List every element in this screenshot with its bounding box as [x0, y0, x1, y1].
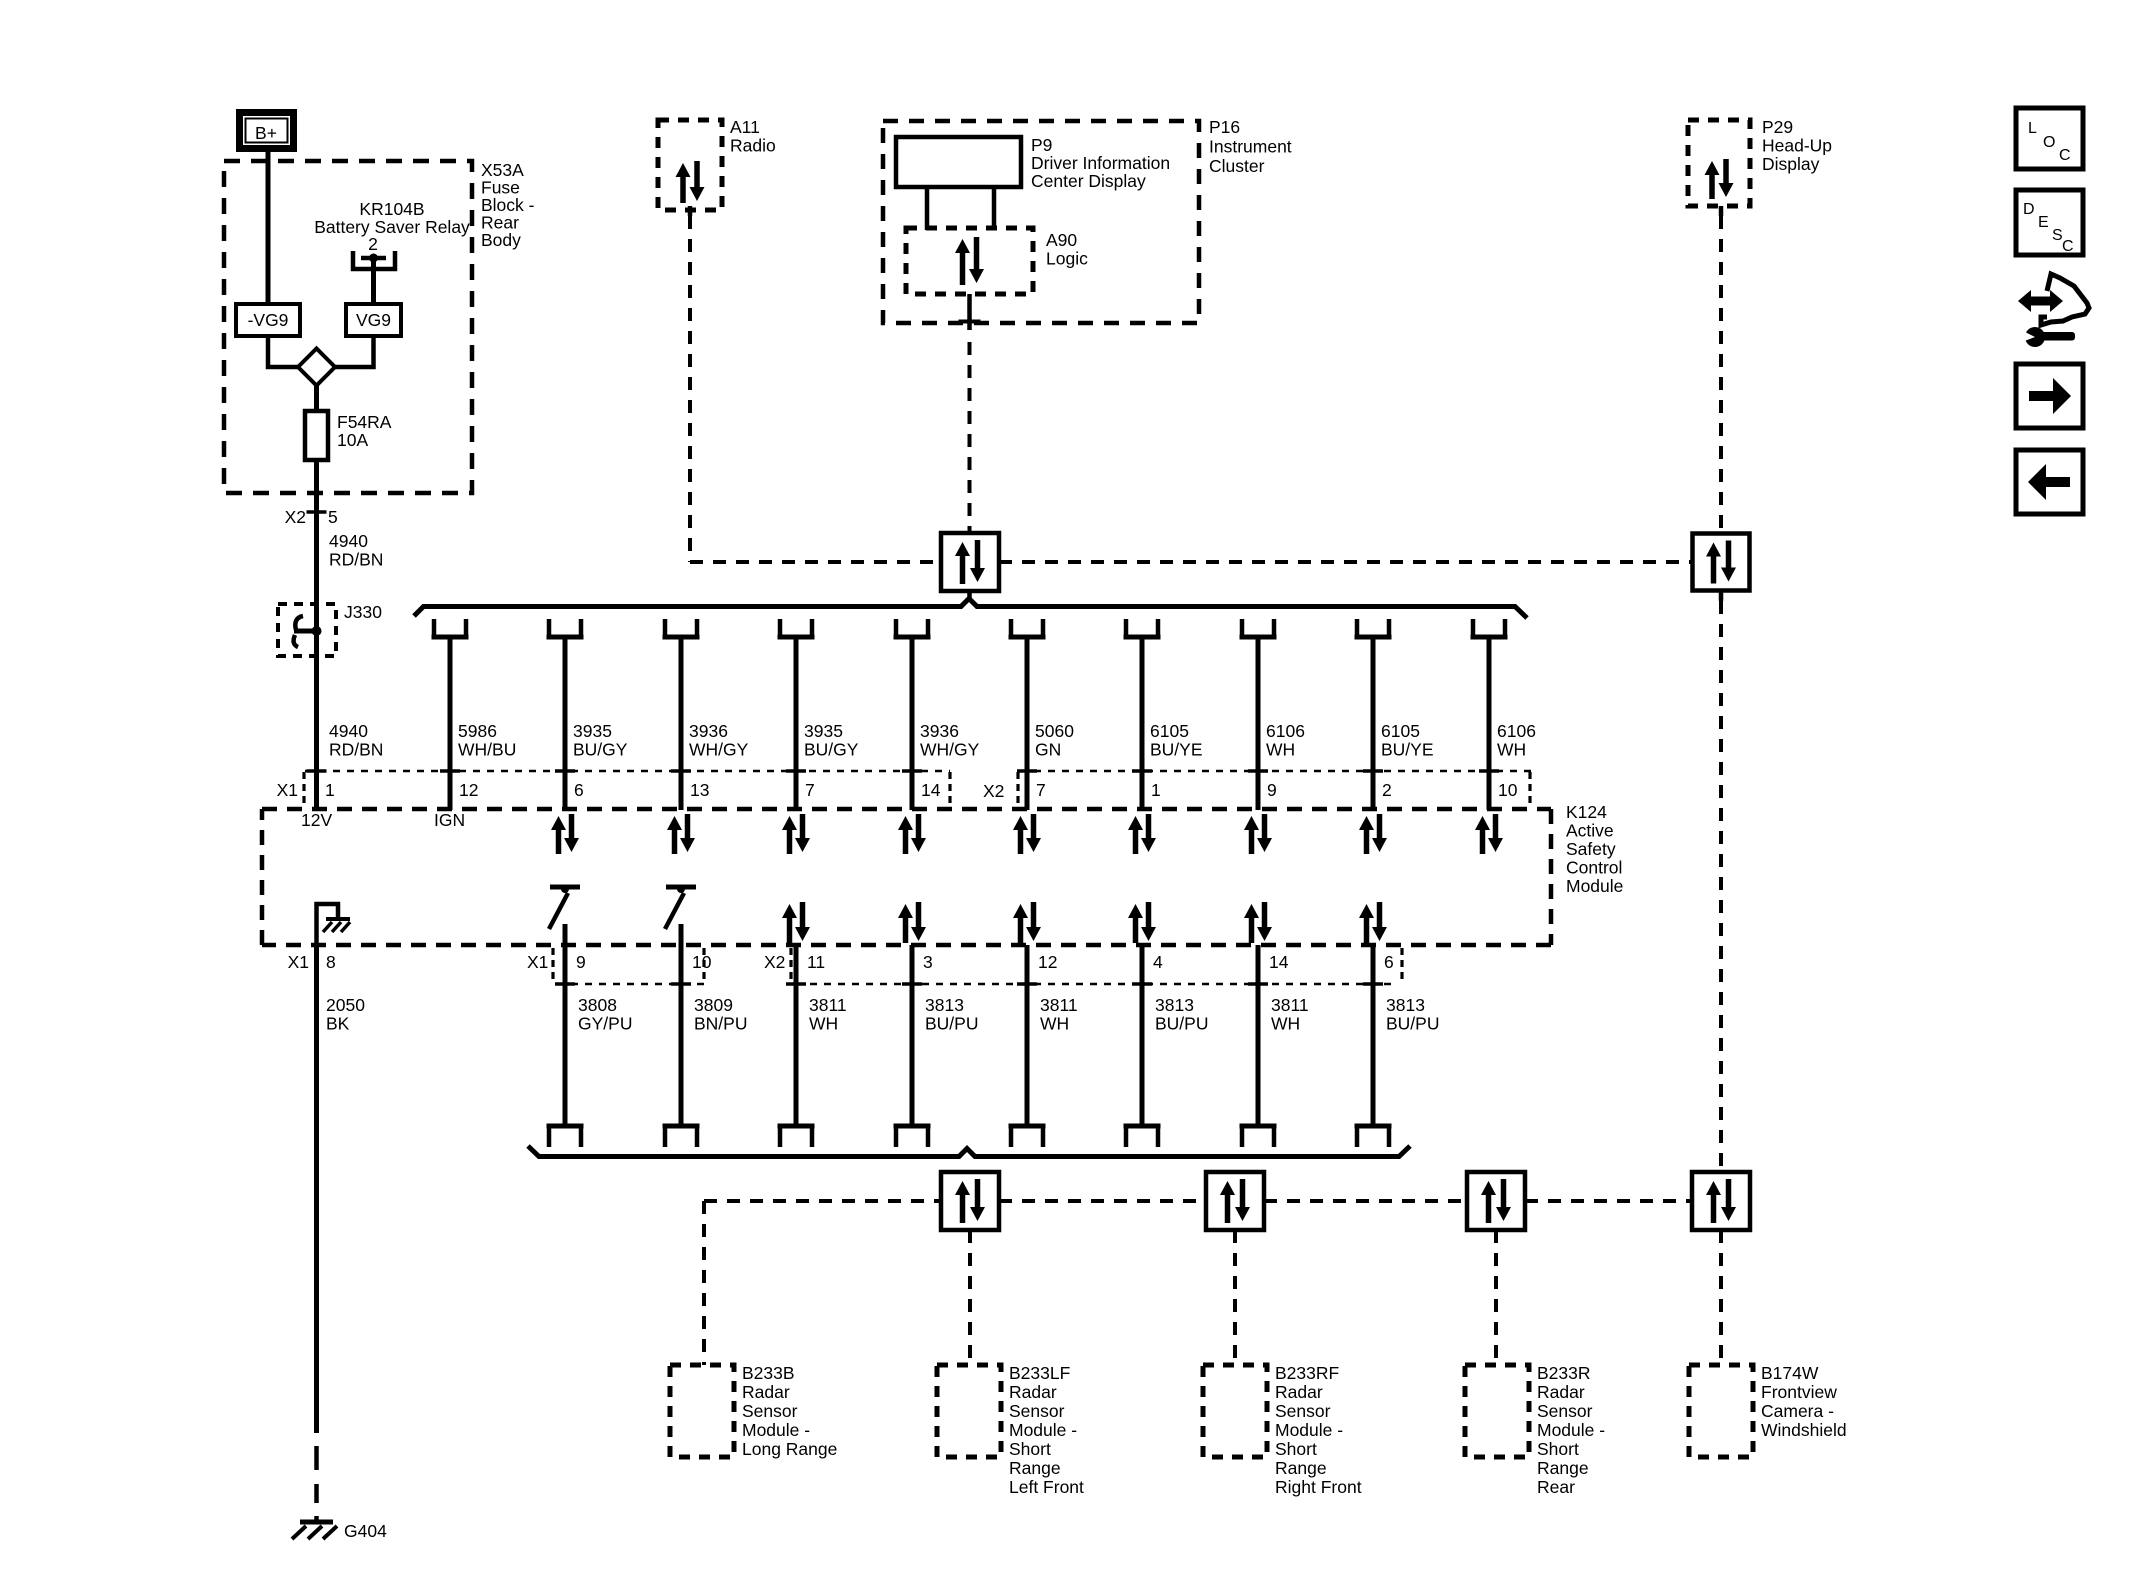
wire label 3813 BU/PU: [925, 995, 978, 1034]
svg-text:Camera -: Camera -: [1761, 1401, 1834, 1421]
icon LOC button: [2016, 108, 2083, 169]
wire 3813 BU/PU from K124 pin 6: [1363, 945, 1383, 1126]
svg-text:B233B: B233B: [742, 1363, 795, 1383]
svg-text:Module -: Module -: [742, 1420, 810, 1440]
K124 internal serial arrows at x=1489 (row 1): [1475, 814, 1503, 854]
pin 4 (bottom): [1153, 952, 1163, 972]
bus drop terminal for wire 6105: [1124, 619, 1161, 637]
svg-text:Range: Range: [1275, 1458, 1327, 1478]
K124 internal switch (left): [549, 885, 580, 929]
wire junction to B174W: [1719, 1230, 1723, 1365]
svg-text:3935: 3935: [573, 721, 612, 741]
bus drop terminal for wire 3936: [663, 619, 700, 637]
wire label 6105 BU/YE: [1381, 721, 1434, 760]
pin 7: [805, 780, 815, 800]
connector label X2 (bottom): [764, 948, 791, 982]
wire 5060 GN to K124 pin 7: [1017, 637, 1037, 810]
svg-text:9: 9: [576, 952, 586, 972]
svg-text:-VG9: -VG9: [248, 310, 289, 330]
wire label 5060 GN: [1035, 721, 1074, 760]
bus drop terminal for wire 6106: [1240, 619, 1277, 637]
svg-text:Safety: Safety: [1566, 839, 1616, 859]
svg-text:Short: Short: [1275, 1439, 1317, 1459]
wire -VG9 to junction diamond: [268, 336, 298, 367]
svg-text:Left Front: Left Front: [1009, 1477, 1084, 1497]
svg-text:2: 2: [1382, 780, 1392, 800]
bus drop terminal for wire 5060: [1009, 619, 1046, 637]
wire serial data to B233B: [702, 1201, 706, 1365]
svg-text:3: 3: [923, 952, 933, 972]
wire VG9 to junction diamond: [334, 336, 374, 367]
svg-text:B233LF: B233LF: [1009, 1363, 1070, 1383]
wire 2050 BK ground: [314, 945, 319, 1524]
wire A11 to serial data line: [688, 206, 693, 562]
pin 12: [459, 780, 478, 800]
svg-text:BU/YE: BU/YE: [1150, 740, 1203, 760]
svg-text:3813: 3813: [1155, 995, 1194, 1015]
svg-text:12V: 12V: [301, 810, 332, 830]
wire diamond to fuse F54RA: [314, 385, 319, 413]
label P29 Head-Up Display: [1762, 117, 1832, 174]
pin 3 (bottom): [923, 952, 933, 972]
pin 9 (bottom): [576, 952, 586, 972]
label G404: [344, 1521, 387, 1541]
wire P29 junction down to lower junction: [1719, 591, 1724, 1172]
bus terminal for wire 3811: [1240, 1126, 1277, 1147]
bus terminal for wire 3808: [547, 1126, 584, 1147]
stub junction box to data bus break: [967, 591, 972, 599]
svg-text:Battery Saver Relay: Battery Saver Relay: [314, 217, 470, 237]
svg-text:9: 9: [1267, 780, 1277, 800]
label B174W: [1761, 1363, 1847, 1440]
svg-text:10A: 10A: [337, 430, 368, 450]
svg-text:BN/PU: BN/PU: [694, 1014, 747, 1034]
label X53A Fuse Block - Rear Body: [481, 160, 535, 250]
svg-text:6105: 6105: [1150, 721, 1189, 741]
svg-text:B233RF: B233RF: [1275, 1363, 1339, 1383]
svg-text:3813: 3813: [925, 995, 964, 1015]
wire A90 to serial data junction: [959, 294, 981, 533]
svg-text:Module -: Module -: [1275, 1420, 1343, 1440]
label J330: [344, 602, 382, 622]
svg-text:Range: Range: [1009, 1458, 1061, 1478]
svg-text:Logic: Logic: [1046, 249, 1088, 269]
svg-text:X2: X2: [285, 507, 306, 527]
svg-text:12: 12: [1038, 952, 1057, 972]
svg-text:12: 12: [459, 780, 478, 800]
wire 6105 BU/YE to K124 pin 2: [1363, 637, 1383, 810]
svg-text:7: 7: [1036, 780, 1046, 800]
svg-text:Long Range: Long Range: [742, 1439, 837, 1459]
label IGN: [434, 810, 465, 830]
svg-text:GY/PU: GY/PU: [578, 1014, 632, 1034]
K124 internal serial arrows at x=1142 (row 2): [1128, 902, 1156, 943]
svg-text:Radar: Radar: [1009, 1382, 1057, 1402]
svg-text:D: D: [2023, 201, 2035, 218]
svg-text:13: 13: [690, 780, 709, 800]
bus terminal for wire 3811: [1009, 1126, 1046, 1147]
svg-text:WH: WH: [1497, 740, 1526, 760]
svg-text:5: 5: [328, 507, 338, 527]
label B233B: [742, 1363, 837, 1459]
wire 3809 BN/PU from K124 pin 10: [671, 924, 691, 1126]
svg-text:J330: J330: [344, 602, 382, 622]
icon DESC button: [2016, 190, 2083, 255]
K124 internal serial arrows at x=1373 (row 2): [1359, 902, 1387, 943]
wire label 3936 WH/GY: [689, 721, 749, 760]
pin 9: [1267, 780, 1277, 800]
K124 internal serial arrows at x=1027 (row 1): [1013, 814, 1041, 854]
splice J330: [278, 604, 336, 656]
wire 3808 GY/PU from K124 pin 9: [555, 924, 575, 1126]
svg-text:3935: 3935: [804, 721, 843, 741]
svg-text:BU/PU: BU/PU: [1386, 1014, 1439, 1034]
serial data junction box (B233RF): [1206, 1172, 1264, 1230]
label K124 Active Safety Control Module: [1566, 802, 1623, 896]
wire label 4940 RD/BN (lower): [329, 721, 383, 760]
svg-text:B233R: B233R: [1537, 1363, 1591, 1383]
bus drop terminal for wire 3935: [778, 619, 815, 637]
label A90 Logic: [1046, 230, 1088, 269]
svg-text:WH/BU: WH/BU: [458, 740, 516, 760]
serial data junction box (top center): [941, 533, 999, 591]
K124 internal serial arrows at x=912 (row 1): [898, 814, 926, 854]
pin 12 (bottom): [1038, 952, 1057, 972]
connector X1 face line (bottom): [557, 983, 710, 986]
svg-text:A11: A11: [730, 117, 760, 137]
icon next arrow button: [2016, 364, 2083, 428]
bus drop terminal for wire 5986: [432, 619, 469, 637]
svg-text:WH: WH: [1040, 1014, 1069, 1034]
svg-text:Range: Range: [1537, 1458, 1589, 1478]
serial data junction box (B174W): [1692, 1172, 1750, 1230]
connector VG9: [346, 304, 401, 336]
svg-text:O: O: [2043, 134, 2055, 151]
wire P9 right leg to A90: [992, 187, 997, 230]
relay KR104B terminal 2 symbol: [353, 251, 395, 269]
K124 internal serial arrows at x=681 (row 1): [667, 814, 695, 854]
module K124 Active Safety Control Module dashed outline: [262, 809, 1551, 945]
svg-text:Display: Display: [1762, 154, 1820, 174]
label F54RA 10A: [337, 412, 392, 450]
label A11 Radio: [730, 117, 776, 156]
svg-text:Module: Module: [1566, 876, 1623, 896]
wire label 3811 WH: [1040, 995, 1078, 1034]
svg-text:10: 10: [692, 952, 712, 972]
svg-text:5986: 5986: [458, 721, 497, 741]
wire junction to B233R: [1494, 1230, 1498, 1365]
wire relay terminal 2 to VG9: [371, 260, 376, 304]
svg-text:3813: 3813: [1386, 995, 1425, 1015]
junction diamond: [298, 349, 335, 386]
K124 internal serial arrows at x=1027 (row 2): [1013, 902, 1041, 943]
module P16 Instrument Cluster dashed box: [883, 121, 1199, 323]
pin 14 (bottom): [1269, 952, 1289, 972]
wire label 3808 GY/PU: [578, 995, 632, 1034]
serial data junction box (B233R): [1467, 1172, 1525, 1230]
wire P29 to serial data junction: [1719, 206, 1724, 533]
wire 3811 WH from K124 pin 11: [786, 945, 806, 1126]
wire label 3811 WH: [1271, 995, 1309, 1034]
wire 3813 BU/PU from K124 pin 4: [1132, 945, 1152, 1126]
bus terminal for wire 3813: [1124, 1126, 1161, 1147]
svg-text:BK: BK: [326, 1014, 350, 1034]
svg-text:WH: WH: [1266, 740, 1295, 760]
svg-text:11: 11: [807, 952, 825, 972]
module B233B dashed box: [670, 1365, 734, 1457]
svg-text:Cluster: Cluster: [1209, 156, 1265, 176]
K124 internal serial arrows at x=796 (row 1): [782, 814, 810, 854]
svg-text:3811: 3811: [1271, 995, 1309, 1015]
wire 3936 WH/GY to K124 pin 13: [671, 637, 691, 810]
wire label 3809 BN/PU: [694, 995, 747, 1034]
module B233R dashed box: [1465, 1365, 1529, 1457]
svg-text:RD/BN: RD/BN: [329, 740, 383, 760]
fuse F54RA 10A: [305, 411, 328, 460]
svg-text:Radio: Radio: [730, 136, 776, 156]
K124 internal serial arrows at x=912 (row 2): [898, 902, 926, 943]
fuse block bottom connector X2 pin 5 tick: [285, 507, 338, 527]
svg-text:WH: WH: [1271, 1014, 1300, 1034]
wire label 3813 BU/PU: [1155, 995, 1208, 1034]
display P9 Driver Information Center Display: [896, 137, 1021, 187]
relay KR104B label: [314, 199, 470, 254]
wire label 2050 BK: [326, 995, 365, 1034]
svg-text:B+: B+: [255, 123, 277, 143]
wire 3811 WH from K124 pin 14: [1248, 945, 1268, 1126]
svg-text:Driver Information: Driver Information: [1031, 153, 1170, 173]
ground G404: [292, 1522, 337, 1539]
K124 internal serial arrows at x=565 (row 1): [551, 814, 579, 854]
icon diagnostic wrench: [2018, 274, 2089, 347]
module B174W dashed box: [1689, 1365, 1753, 1457]
wire label 3813 BU/PU: [1386, 995, 1439, 1034]
connector end mark (top right): [1528, 772, 1531, 807]
svg-text:Short: Short: [1009, 1439, 1051, 1459]
svg-text:Sensor: Sensor: [1537, 1401, 1593, 1421]
svg-text:6105: 6105: [1381, 721, 1420, 741]
svg-text:X1: X1: [277, 780, 298, 800]
bus drop terminal for wire 6106: [1471, 619, 1508, 637]
svg-text:VG9: VG9: [356, 310, 391, 330]
battery positive B+ terminal: [236, 109, 297, 152]
svg-text:P16: P16: [1209, 117, 1240, 137]
wire junction to B233RF: [1233, 1230, 1237, 1365]
svg-text:Windshield: Windshield: [1761, 1420, 1847, 1440]
wire label 3936 WH/GY: [920, 721, 980, 760]
svg-text:1: 1: [1151, 780, 1161, 800]
svg-text:3811: 3811: [1040, 995, 1078, 1015]
svg-text:BU/YE: BU/YE: [1381, 740, 1434, 760]
wire label 4940 RD/BN (upper): [329, 531, 383, 570]
pin 2: [1382, 780, 1392, 800]
connector label X1 for ground pin: [288, 952, 309, 972]
svg-text:Instrument: Instrument: [1209, 137, 1292, 157]
bus terminal for wire 3813: [1355, 1126, 1392, 1147]
svg-text:Frontview: Frontview: [1761, 1382, 1837, 1402]
wire P9 left leg to A90: [925, 187, 930, 230]
svg-text:3936: 3936: [689, 721, 728, 741]
label B233LF: [1009, 1363, 1084, 1497]
pin 14: [921, 780, 941, 800]
wire label 6106 WH: [1266, 721, 1305, 760]
pin 1: [1151, 780, 1161, 800]
pin 10: [1498, 780, 1518, 800]
svg-text:Active: Active: [1566, 821, 1614, 841]
pin 7: [1036, 780, 1046, 800]
svg-text:GN: GN: [1035, 740, 1061, 760]
svg-text:2: 2: [368, 234, 378, 254]
svg-text:Module -: Module -: [1537, 1420, 1605, 1440]
pin 8: [326, 952, 336, 972]
svg-text:10: 10: [1498, 780, 1518, 800]
wire 6106 WH to K124 pin 10: [1479, 637, 1499, 810]
wire 5986 WH/BU to K124 pin 12: [440, 637, 460, 810]
module B233LF dashed box: [937, 1365, 1001, 1457]
wire junction to B233LF: [968, 1230, 972, 1365]
svg-text:Sensor: Sensor: [1275, 1401, 1331, 1421]
connector label X2 (top): [950, 772, 1018, 807]
svg-text:BU/GY: BU/GY: [573, 740, 628, 760]
svg-text:C: C: [2059, 147, 2071, 164]
label 12V: [301, 810, 332, 830]
label B233RF: [1275, 1363, 1362, 1497]
connector X1 end mark (bottom): [702, 948, 705, 982]
svg-text:Radar: Radar: [1537, 1382, 1585, 1402]
module P29 Head-Up Display dashed box: [1688, 120, 1750, 206]
svg-text:Body: Body: [481, 230, 521, 250]
data bus (bottom): [528, 1146, 1410, 1157]
svg-text:Short: Short: [1537, 1439, 1579, 1459]
svg-text:X1: X1: [288, 952, 309, 972]
wire 6105 BU/YE to K124 pin 1: [1132, 637, 1152, 810]
wire 3811 WH from K124 pin 12: [1017, 945, 1037, 1126]
svg-text:3808: 3808: [578, 995, 617, 1015]
svg-text:4: 4: [1153, 952, 1163, 972]
svg-text:5060: 5060: [1035, 721, 1074, 741]
svg-text:BU/PU: BU/PU: [1155, 1014, 1208, 1034]
fuse block X53A dashed outline: [224, 161, 472, 493]
label B233R: [1537, 1363, 1605, 1497]
svg-text:3936: 3936: [920, 721, 959, 741]
svg-text:Sensor: Sensor: [1009, 1401, 1065, 1421]
wire 3935 BU/GY to K124 pin 6: [555, 637, 575, 810]
connector label X1 (bottom): [527, 948, 553, 982]
svg-text:RD/BN: RD/BN: [329, 550, 383, 570]
K124 internal serial arrows at x=796 (row 2): [782, 902, 810, 943]
A11 serial data arrows: [676, 161, 705, 203]
bus terminal for wire 3809: [663, 1126, 700, 1147]
svg-text:6: 6: [1384, 952, 1394, 972]
svg-text:6106: 6106: [1497, 721, 1536, 741]
svg-text:Rear: Rear: [1537, 1477, 1575, 1497]
svg-text:X2: X2: [983, 781, 1004, 801]
svg-text:Radar: Radar: [742, 1382, 790, 1402]
svg-text:Radar: Radar: [1275, 1382, 1323, 1402]
svg-text:A90: A90: [1046, 230, 1077, 250]
svg-text:WH/GY: WH/GY: [920, 740, 980, 760]
svg-text:L: L: [2028, 120, 2037, 137]
connector X2 face line (bottom): [796, 948, 1402, 984]
wire 3935 BU/GY to K124 pin 7: [786, 637, 806, 810]
svg-text:4940: 4940: [329, 531, 368, 551]
pin 1 (12V): [307, 771, 335, 800]
serial data line radio to junctions: [690, 560, 1693, 564]
svg-text:Sensor: Sensor: [742, 1401, 798, 1421]
pin 11 (bottom): [807, 952, 825, 972]
svg-text:X1: X1: [527, 952, 548, 972]
svg-text:IGN: IGN: [434, 810, 465, 830]
svg-text:KR104B: KR104B: [359, 199, 424, 219]
serial data junction box (top right): [1693, 534, 1750, 591]
svg-text:3811: 3811: [809, 995, 847, 1015]
svg-text:P29: P29: [1762, 117, 1793, 137]
svg-text:WH: WH: [809, 1014, 838, 1034]
label P9 Driver Information Center Display: [1031, 135, 1170, 191]
wire label 3935 BU/GY: [573, 721, 628, 760]
K124 connector X1 face line (top): [305, 770, 1538, 773]
svg-text:3809: 3809: [694, 995, 733, 1015]
svg-text:Module -: Module -: [1009, 1420, 1077, 1440]
bus drop terminal for wire 6105: [1355, 619, 1392, 637]
P29 serial data arrows: [1705, 159, 1734, 199]
serial data junction box (B233LF): [941, 1172, 999, 1230]
wire label 6106 WH: [1497, 721, 1536, 760]
svg-text:Control: Control: [1566, 858, 1622, 878]
logic block A90 dashed box: [906, 228, 1033, 294]
wire label 5986 WH/BU: [458, 721, 516, 760]
label P16 Instrument Cluster: [1209, 117, 1292, 176]
wire label 3935 BU/GY: [804, 721, 859, 760]
svg-text:B174W: B174W: [1761, 1363, 1819, 1383]
svg-text:4940: 4940: [329, 721, 368, 741]
bus terminal for wire 3813: [894, 1126, 931, 1147]
module B233RF dashed box: [1203, 1365, 1267, 1457]
svg-text:WH/GY: WH/GY: [689, 740, 749, 760]
svg-text:6: 6: [574, 780, 584, 800]
svg-text:Head-Up: Head-Up: [1762, 136, 1832, 156]
K124 internal serial arrows at x=1258 (row 2): [1244, 902, 1272, 943]
pin 6: [574, 780, 584, 800]
wire label 3811 WH: [809, 995, 847, 1034]
wire 3936 WH/GY to K124 pin 14: [902, 637, 922, 810]
icon back arrow button: [2016, 450, 2083, 514]
svg-text:2050: 2050: [326, 995, 365, 1015]
svg-text:1: 1: [325, 780, 335, 800]
wire B+ to fuse block -VG9: [266, 152, 271, 304]
K124 internal switch (right): [665, 885, 696, 929]
svg-text:BU/GY: BU/GY: [804, 740, 859, 760]
svg-text:14: 14: [1269, 952, 1289, 972]
data bus (top): [414, 599, 1527, 619]
svg-text:X2: X2: [764, 952, 785, 972]
svg-text:E: E: [2038, 214, 2049, 231]
K124 internal serial arrows at x=1142 (row 1): [1128, 814, 1156, 854]
pin 6 (bottom): [1384, 952, 1394, 972]
svg-text:P9: P9: [1031, 135, 1052, 155]
connector -VG9: [236, 304, 300, 336]
svg-text:BU/PU: BU/PU: [925, 1014, 978, 1034]
pin 10 (bottom): [692, 952, 712, 972]
A90 serial data arrows: [955, 237, 984, 285]
bus drop terminal for wire 3935: [547, 619, 584, 637]
wire 3813 BU/PU from K124 pin 3: [902, 945, 922, 1126]
svg-text:Center Display: Center Display: [1031, 171, 1146, 191]
svg-text:6106: 6106: [1266, 721, 1305, 741]
bus terminal for wire 3811: [778, 1126, 815, 1147]
K124 internal serial arrows at x=1258 (row 1): [1244, 814, 1272, 854]
svg-text:F54RA: F54RA: [337, 412, 392, 432]
